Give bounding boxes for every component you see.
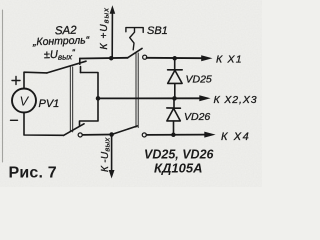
svg-text:К Х1: К Х1 [216, 53, 243, 65]
junction VD26 bottom [171, 133, 176, 138]
svg-text:VD26: VD26 [184, 111, 210, 123]
svg-text:К Х2,Х3: К Х2,Х3 [214, 94, 258, 106]
switch SA2 pole2 blade [64, 124, 85, 136]
X2X3 rail [98, 97, 200, 99]
top +U rail left segment [80, 57, 128, 60]
svg-text:К -Uвых: К -Uвых [100, 137, 112, 172]
svg-text:SB1: SB1 [147, 25, 168, 37]
arrow to X4 [204, 132, 215, 138]
junction common bus to X2X3 rail [96, 96, 101, 101]
arrow to +Uvyh [110, 5, 116, 14]
SB1 pole2 fixed contact circle [142, 133, 146, 137]
wire common bus from SA2.1 contact2 to SA2.2 contact2 [80, 73, 99, 126]
SA2 pole1 fixed contact stub to +U rail [79, 58, 81, 64]
SB1 actuator [126, 28, 143, 50]
junction VD25 bottom [172, 96, 177, 101]
svg-text:VD25: VD25 [186, 73, 212, 85]
scan border left edge [2, 10, 4, 162]
svg-text:V: V [20, 94, 30, 109]
junction -U drop [109, 132, 114, 137]
bottom rail segment to -U junction [82, 134, 111, 136]
arrow to X2,X3 [199, 95, 210, 101]
minus terminal mark [11, 119, 18, 121]
SA2 pole2 fixed contact circle [78, 133, 82, 137]
-U drop wire [111, 135, 113, 171]
SB1 mechanical link (double line) [136, 53, 138, 128]
SA2 mechanical link (double line) [70, 66, 72, 132]
arrow to -Uvyh [109, 170, 115, 179]
svg-text:PV1: PV1 [39, 98, 60, 110]
svg-text:КД105А: КД105А [154, 161, 202, 176]
top rail right segment [147, 57, 202, 59]
svg-text:К +Uвых: К +Uвых [99, 7, 111, 49]
pushbutton SB1 pole2 blade [112, 126, 138, 135]
plus terminal mark [12, 77, 20, 85]
diode VD25 [168, 58, 183, 98]
wire PV1 minus to SA2 pole2 common [24, 113, 64, 136]
SB1 pole1 fixed contact circle [143, 55, 147, 59]
junction +U riser [109, 56, 114, 61]
svg-text:„Контроль“: „Контроль“ [32, 34, 90, 48]
X4 rail [146, 134, 205, 136]
diode VD26 [167, 98, 181, 134]
pushbutton SB1 pole1 blade [128, 48, 142, 57]
arrow to X1 [201, 55, 212, 61]
svg-text:VD25, VD26: VD25, VD26 [144, 148, 215, 162]
svg-text:К Х4: К Х4 [221, 131, 250, 143]
voltmeter PV1 [12, 89, 36, 113]
wire PV1 plus to SA2 pole1 common [24, 72, 47, 88]
svg-text:Рис. 7: Рис. 7 [9, 165, 57, 182]
scan grain overlay [0, 0, 262, 187]
junction VD25 top [172, 56, 177, 61]
SA2 pole1 second fixed contact stub [80, 67, 82, 73]
switch SA2 pole1 blade [47, 61, 86, 73]
+U riser wire [111, 13, 113, 59]
